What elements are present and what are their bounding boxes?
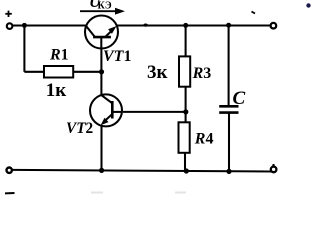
- node junction R4 bottom: [184, 168, 189, 173]
- wire top rail left (input to VT1 collector): [12, 24, 87, 26]
- svg-text:КЭ: КЭ: [98, 0, 112, 11]
- wire C top lead: [228, 25, 230, 105]
- wire R1 left lead: [24, 71, 44, 73]
- stray mark bottom-left (cropped caption): [5, 192, 15, 194]
- stray speck top-right corner: [306, 3, 310, 7]
- svg-text:VT1: VT1: [103, 48, 131, 65]
- plus sign (+ input polarity): [5, 11, 12, 17]
- node junction C top: [226, 23, 231, 28]
- arrow U_КЭ: [80, 8, 125, 15]
- svg-text:VT2: VT2: [66, 120, 93, 137]
- node junction VT1 base / R1 / VT2 collector: [99, 69, 104, 74]
- wire bottom rail: [12, 170, 271, 172]
- wire VT2 base to divider: [123, 111, 186, 113]
- terminal output top-right: [271, 23, 277, 29]
- wire R1 branch vertical: [23, 25, 25, 71]
- node junction top-left (R1 branch): [22, 23, 27, 28]
- wire VT2 emitter down: [100, 126, 102, 171]
- transistor VT2: [90, 94, 122, 126]
- node junction divider mid: [183, 109, 188, 114]
- svg-text:1к: 1к: [46, 80, 66, 101]
- wire R4 bottom lead: [184, 153, 186, 171]
- wire R1 right lead: [73, 71, 101, 73]
- terminal input top-left: [7, 23, 13, 29]
- transistor VT1: [85, 16, 118, 50]
- stray nub above bottom-right terminal: [272, 164, 274, 166]
- resistor R4: [179, 122, 190, 153]
- node junction C bottom: [226, 169, 231, 174]
- wire R3 top lead: [185, 25, 187, 56]
- wire R3 bottom to R4 top: [185, 87, 187, 123]
- faint caption smudge bottom middle-left: [91, 192, 103, 194]
- svg-text:R3: R3: [192, 65, 212, 82]
- terminal bottom-left: [7, 168, 12, 173]
- node junction R3 top: [183, 23, 188, 28]
- node junction VT2 emitter bottom: [99, 168, 104, 173]
- wire C bottom lead: [228, 114, 230, 172]
- capacitor C: [219, 106, 238, 112]
- wire VT1 base to VT2 collector: [100, 49, 102, 95]
- svg-text:C: C: [233, 88, 246, 109]
- node small dot on top rail: [143, 24, 147, 27]
- svg-text:3к: 3к: [147, 62, 168, 83]
- svg-text:R4: R4: [194, 130, 214, 147]
- terminal bottom-right: [271, 167, 277, 173]
- resistor R3: [179, 56, 190, 86]
- wire top rail right (VT1 emitter to output): [117, 24, 271, 26]
- resistor R1: [44, 66, 73, 78]
- faint caption smudge bottom middle-right: [175, 192, 186, 194]
- stray tick near top-right: [252, 12, 256, 14]
- svg-text:R1: R1: [49, 47, 69, 64]
